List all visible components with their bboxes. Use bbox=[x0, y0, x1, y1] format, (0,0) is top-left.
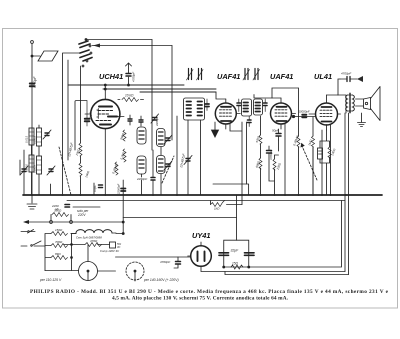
choke L9 bbox=[76, 230, 112, 233]
trimmer CT4 bbox=[164, 135, 172, 144]
chassis bus thick bbox=[23, 194, 382, 196]
resistor R11 130 bbox=[328, 147, 331, 158]
capacitor C 100pF bbox=[139, 116, 143, 126]
wire heater chain y217.5 bbox=[123, 217, 236, 219]
wire V2 top bbox=[216, 92, 226, 99]
vertical rails right bbox=[322, 125, 331, 195]
svg-text:4700pF: 4700pF bbox=[33, 76, 37, 88]
tube V1 UCH41 bbox=[91, 99, 120, 128]
osc coil L8 bbox=[157, 156, 166, 174]
wire down v172 bbox=[171, 46, 173, 141]
wire mains to UY41 bbox=[116, 256, 192, 258]
wire v31 links bbox=[31, 145, 33, 195]
wire OT to speaker bbox=[356, 99, 364, 106]
svg-text:150Ω: 150Ω bbox=[55, 228, 63, 232]
trimmer CT5 bbox=[164, 161, 172, 170]
osc coil L6 bbox=[157, 129, 166, 147]
tube V5 UY41 bbox=[191, 246, 212, 267]
trimmer CT3 bbox=[47, 166, 55, 175]
voltage selector plug bbox=[79, 262, 98, 281]
wire h207 bbox=[73, 206, 100, 208]
tube V1 internals bbox=[85, 84, 124, 195]
capacitor C 47pF tube1 bbox=[99, 185, 103, 188]
capacitor C 2200pF chassis bbox=[65, 205, 70, 208]
wire h92 bbox=[140, 91, 216, 93]
bus stubs left bbox=[51, 183, 95, 195]
svg-text:PHILIPS RADIO - Modd. BI 351 U: PHILIPS RADIO - Modd. BI 351 U e BI 290 … bbox=[30, 289, 389, 295]
volume dashed arrow bbox=[302, 146, 317, 180]
rail y274.5 bbox=[225, 272, 349, 275]
wires mains left bbox=[45, 234, 51, 271]
wire switch arrow lead bbox=[92, 45, 172, 47]
capacitor C-ant 4700pF bbox=[30, 84, 34, 87]
svg-text:50pF: 50pF bbox=[272, 129, 279, 133]
bus dots bbox=[31, 194, 347, 196]
capacitor C 2200pF osc bbox=[151, 114, 159, 123]
antenna coil L2 bbox=[37, 128, 42, 146]
svg-text:01009: 01009 bbox=[33, 165, 37, 173]
capacitor C heater blob bbox=[121, 189, 126, 192]
coil shield box bbox=[63, 53, 81, 195]
svg-text:22000pF: 22000pF bbox=[117, 183, 121, 195]
resistor R4 bbox=[115, 162, 118, 175]
resistor R16 470 bbox=[85, 243, 102, 247]
osc coil L4 bbox=[37, 156, 42, 174]
ground V2 grid bbox=[214, 122, 216, 130]
tube V3 UAF41 bbox=[271, 103, 292, 124]
wire down v153 bbox=[151, 40, 153, 151]
electrolytic a bbox=[219, 253, 229, 256]
IF2 transformer T2 bbox=[242, 99, 252, 116]
svg-text:15Ω: 15Ω bbox=[232, 262, 239, 266]
resistor R14 bbox=[51, 244, 68, 248]
wire v161 bbox=[160, 147, 162, 195]
resistor R3 27k bbox=[123, 149, 126, 162]
tube V2 UAF41 bbox=[215, 103, 236, 124]
wire filter top bbox=[236, 195, 238, 240]
wire switch down bbox=[80, 66, 82, 143]
resistor R5 47k bbox=[259, 135, 262, 144]
resistor R6 bbox=[259, 158, 262, 169]
trimmer CT2 bbox=[20, 166, 28, 175]
capacitor C 50pF bbox=[276, 129, 281, 140]
trimmer CT6 bbox=[184, 156, 192, 165]
capacitor C 4700pF b bbox=[267, 151, 272, 154]
trimmer CT1 bbox=[43, 130, 51, 139]
wire osc bottom bbox=[142, 150, 154, 195]
wire v188 bbox=[187, 120, 189, 195]
wire h89 bbox=[103, 88, 216, 90]
wire h184 bbox=[213, 184, 249, 195]
electrolytic b bbox=[245, 253, 255, 256]
svg-text:4700pF: 4700pF bbox=[269, 150, 273, 160]
tube V4 UL41 bbox=[316, 103, 338, 125]
svg-text:220V: 220V bbox=[77, 213, 86, 217]
wire mains links bbox=[45, 234, 116, 272]
resistor R13 150 bbox=[51, 232, 68, 236]
wire switch to osc bus bbox=[86, 39, 152, 41]
rail y267 bbox=[224, 201, 342, 268]
capacitor blobs IF2 bbox=[237, 103, 267, 123]
svg-text:10000pF: 10000pF bbox=[299, 110, 310, 114]
svg-text:89Ω: 89Ω bbox=[55, 252, 61, 256]
mains line with arrow bbox=[26, 221, 123, 223]
svg-text:700Ω: 700Ω bbox=[55, 240, 63, 244]
svg-text:4700pF: 4700pF bbox=[341, 72, 351, 76]
svg-text:2200pF: 2200pF bbox=[155, 116, 159, 127]
wire OT B+ down bbox=[345, 113, 349, 275]
svg-text:4700pF: 4700pF bbox=[132, 72, 136, 82]
wire left v20 bbox=[20, 150, 24, 195]
svg-text:4,5 mA. Alto placche 130 V, sc: 4,5 mA. Alto placche 130 V, schermi 75 V… bbox=[112, 296, 289, 302]
lamp box bbox=[110, 242, 116, 248]
svg-text:Comp 130V 3C: Comp 130V 3C bbox=[100, 249, 120, 253]
wire v194 bbox=[200, 120, 202, 195]
svg-text:01003: 01003 bbox=[33, 136, 37, 144]
svg-text:per 140-160V (+ 220V): per 140-160V (+ 220V) bbox=[143, 278, 179, 282]
svg-text:0.015: 0.015 bbox=[25, 136, 29, 143]
wire v37 bbox=[38, 125, 40, 195]
frame antenna L-frame bbox=[32, 51, 58, 61]
shield box V3 bbox=[272, 88, 299, 117]
wire v242 bbox=[241, 122, 243, 205]
resistor R15 bbox=[51, 256, 68, 260]
wire v123 bbox=[122, 180, 124, 234]
antenna coil L1 bbox=[29, 128, 34, 145]
capacitor C 47pF bbox=[128, 115, 132, 125]
svg-text:UAF41: UAF41 bbox=[270, 72, 293, 81]
IF2b transformer bbox=[254, 99, 263, 115]
IF2 tuning marks bbox=[245, 69, 258, 80]
wire v260 bbox=[260, 116, 262, 195]
resistor R1 10k bbox=[122, 98, 139, 102]
trimmer osc padder with arrow bbox=[126, 63, 132, 85]
resistor R7 22k bbox=[273, 159, 276, 170]
IF1 tuning marks bbox=[189, 69, 202, 80]
capacitor UL41 top 4700pF bbox=[340, 76, 363, 82]
capacitor grid blob bbox=[85, 119, 90, 122]
capacitor C 10000pF grid bbox=[302, 115, 306, 118]
svg-text:100pF: 100pF bbox=[89, 112, 93, 120]
svg-text:4700pF: 4700pF bbox=[160, 260, 170, 264]
wire antenna lead bbox=[31, 44, 33, 195]
svg-text:390Ω: 390Ω bbox=[54, 209, 62, 213]
svg-text:UAF41: UAF41 bbox=[217, 72, 240, 81]
ground OT bbox=[358, 113, 366, 127]
wire UL41 plate to OT bbox=[309, 95, 338, 114]
wire choke to v123 bbox=[116, 233, 123, 235]
bus2 bbox=[67, 200, 345, 202]
wire v177 bbox=[176, 116, 178, 195]
wire UL41 top bbox=[338, 79, 340, 95]
wire V2 cathode bbox=[230, 124, 242, 131]
resistor R18 1k bus bbox=[211, 201, 225, 207]
capacitor blob IF1 out bbox=[205, 104, 209, 107]
wire dropper column bbox=[72, 234, 89, 271]
wire v298 bbox=[298, 117, 300, 196]
voltage selector dashed bbox=[126, 262, 144, 280]
mains switch b bbox=[21, 241, 41, 246]
wire v246 bbox=[246, 122, 248, 184]
osc coil L5 bbox=[137, 127, 146, 144]
ground chassis bbox=[27, 195, 37, 209]
speaker LS bbox=[364, 87, 381, 121]
resistor R osc grid bbox=[79, 143, 82, 156]
mains switch a bbox=[21, 230, 35, 234]
wire v285 bbox=[284, 124, 286, 195]
osc coil L7 bbox=[137, 156, 146, 174]
svg-text:per 110-125 V: per 110-125 V bbox=[39, 278, 62, 282]
capacitor padder 2200pF bbox=[151, 178, 155, 181]
wire h85 bbox=[68, 84, 184, 86]
resistor R2 56k bbox=[123, 130, 126, 141]
resistor R9 1M bbox=[312, 136, 315, 147]
osc coil L3 bbox=[29, 155, 34, 172]
svg-text:UL41: UL41 bbox=[314, 72, 332, 81]
filter cap block 2x32uF bbox=[224, 240, 249, 267]
resistor R12 390 bbox=[52, 213, 69, 217]
wire det bbox=[269, 140, 279, 195]
svg-text:UY41: UY41 bbox=[192, 231, 211, 240]
wave switch S1 contacts bbox=[79, 41, 92, 61]
dashed gang link 2 bbox=[162, 156, 174, 183]
resistor R osc2 bbox=[79, 163, 82, 176]
resistor R8 vol bbox=[297, 136, 300, 147]
wire V3 top bbox=[254, 95, 281, 99]
wires UL41 cathode bbox=[313, 130, 330, 195]
wire v313 bbox=[293, 117, 316, 196]
electrolytic C cath bbox=[318, 148, 323, 159]
tuning gang dashed link bbox=[59, 147, 71, 195]
antenna terminal bbox=[31, 41, 34, 44]
resistor R17 15ohm bbox=[231, 265, 243, 269]
IF1 transformer T1 bbox=[184, 98, 205, 120]
rail y271.5 bbox=[201, 266, 345, 271]
svg-text:470Ω: 470Ω bbox=[90, 239, 98, 243]
output transformer T3 bbox=[338, 93, 354, 113]
svg-text:10 kΩ: 10 kΩ bbox=[125, 94, 134, 98]
svg-text:1kΩ: 1kΩ bbox=[214, 207, 220, 211]
capacitor C 4700pF mains bbox=[174, 257, 181, 268]
svg-text:32μF: 32μF bbox=[231, 249, 240, 253]
svg-text:UCH41: UCH41 bbox=[99, 72, 123, 81]
